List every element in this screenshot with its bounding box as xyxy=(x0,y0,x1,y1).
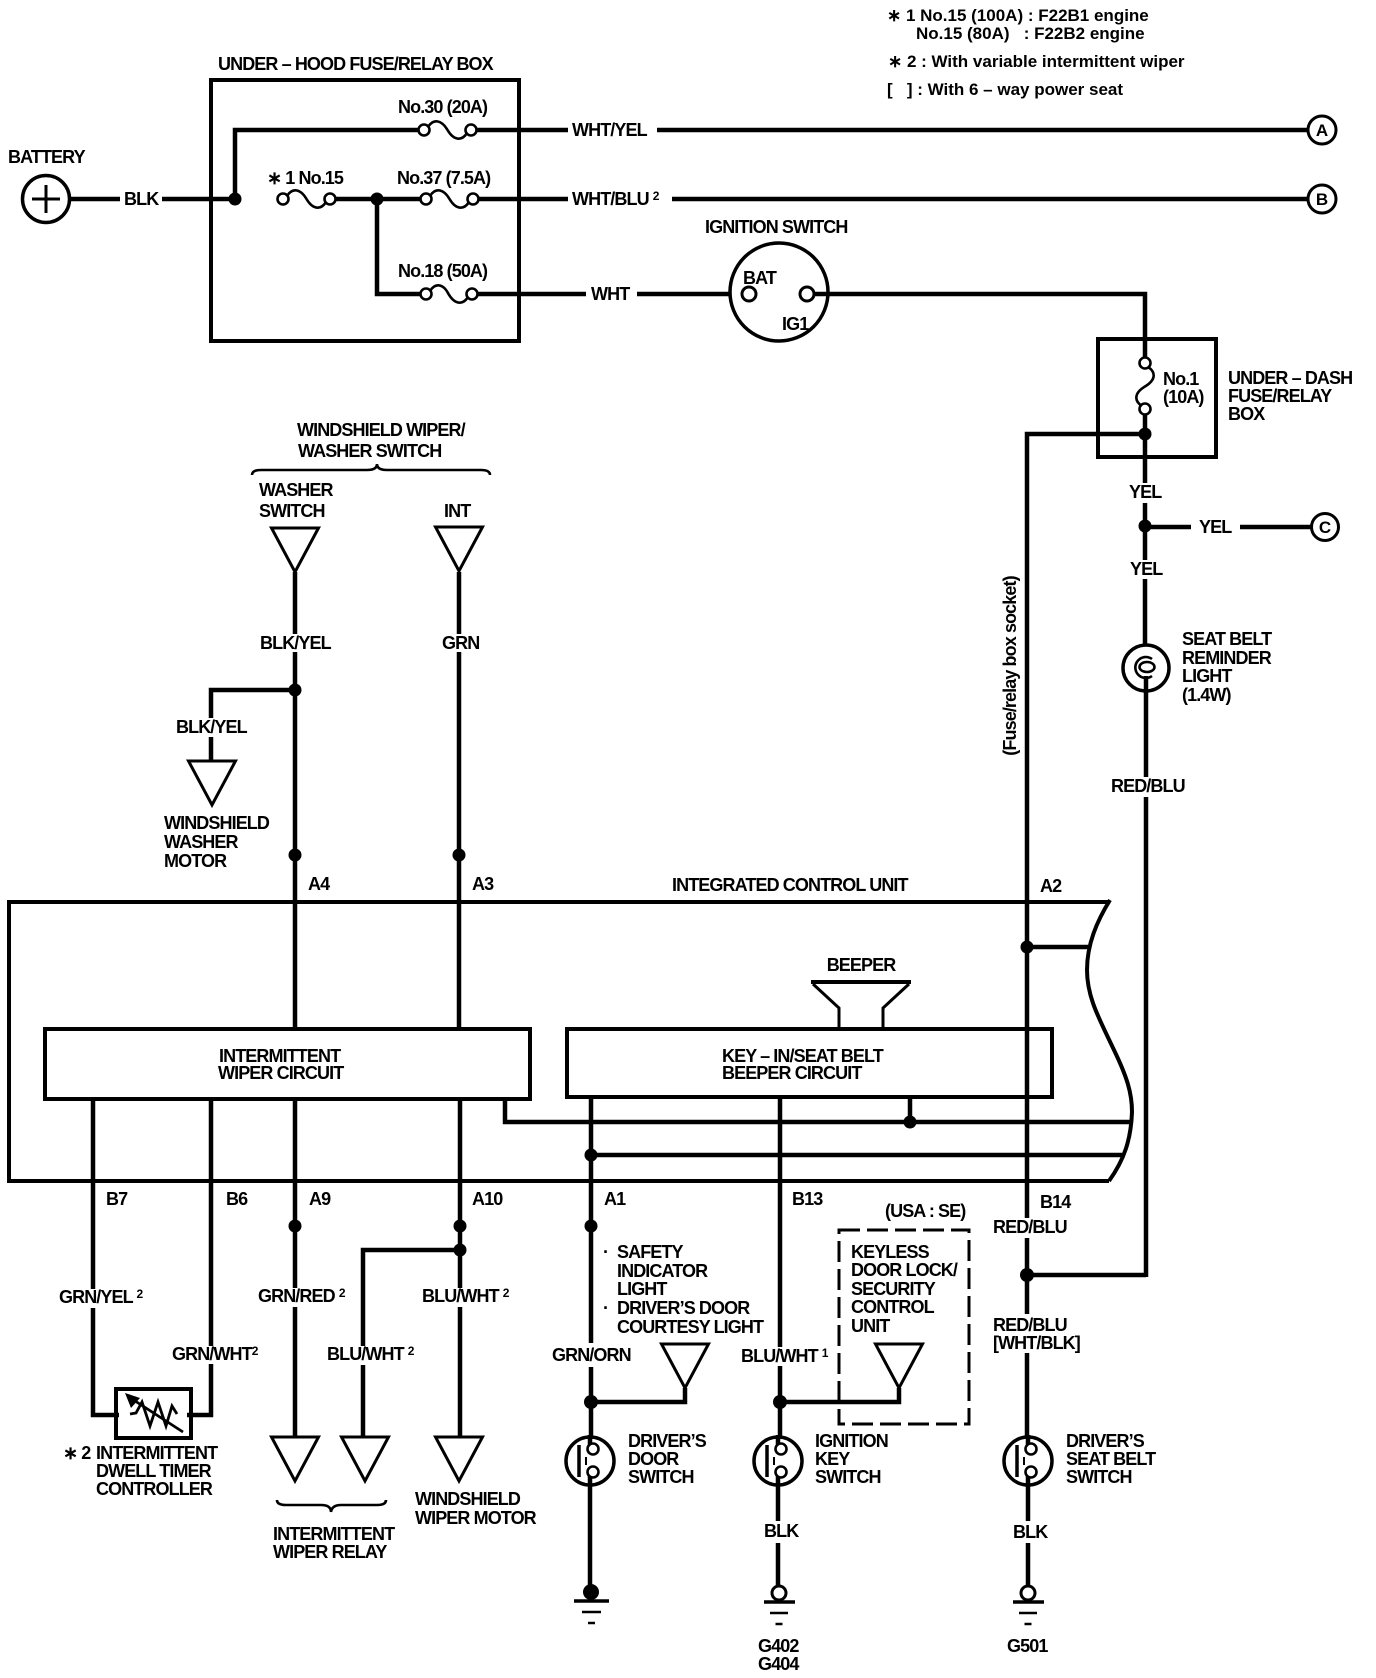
svg-text:SWITCH: SWITCH xyxy=(1066,1467,1132,1487)
svg-text:BLK: BLK xyxy=(764,1521,799,1541)
connector A xyxy=(1308,116,1336,144)
svg-text:[ ] : With 6 – way power sea: [ ] : With 6 – way power seat xyxy=(887,80,1123,99)
node junction dot B14/seat belt light xyxy=(1020,1268,1034,1282)
ground at driver's door switch xyxy=(583,1584,599,1600)
safety indicator connector triangle xyxy=(662,1344,709,1388)
wire fuse No.37 to WHT/BLU label xyxy=(478,197,568,202)
fuse No.30 (20A) xyxy=(419,125,430,136)
wire key-in pin A1 down xyxy=(589,1097,594,1439)
svg-text:RED/BLU: RED/BLU xyxy=(993,1315,1067,1335)
washer switch connector triangle xyxy=(272,528,319,572)
svg-text:(10A): (10A) xyxy=(1163,387,1204,407)
wire junction down to seat belt reminder light xyxy=(1143,532,1148,659)
svg-text:BOX: BOX xyxy=(1228,404,1265,424)
wire WHT to ignition switch BAT xyxy=(637,292,742,297)
svg-text:No.15 (80A) : F22B2 engine: No.15 (80A) : F22B2 engine xyxy=(916,24,1145,43)
intermittent wiper relay connector triangle left xyxy=(272,1437,319,1481)
svg-text:A4: A4 xyxy=(308,874,330,894)
node junction dot A1 bus xyxy=(585,1149,598,1162)
wire seat belt switch to BLK label xyxy=(1026,1485,1031,1521)
wire WHT/BLU to connector B xyxy=(672,197,1308,202)
wire YEL label to C junction xyxy=(1143,503,1148,532)
wire junction to keyless triangle xyxy=(780,1388,899,1402)
wire door switch to ground xyxy=(588,1485,593,1588)
svg-text:GRN/YEL 2: GRN/YEL 2 xyxy=(59,1287,143,1307)
intermittent wiper relay connector triangle right xyxy=(342,1437,389,1481)
wire BLK/YEL to washer motor junction xyxy=(293,652,298,696)
wire IG1 to under-dash fuse box xyxy=(814,294,1145,357)
wire fuse No.30 to WHT/YEL label xyxy=(476,128,568,133)
svg-text:DOOR: DOOR xyxy=(628,1449,679,1469)
fuse No.15 xyxy=(278,194,289,205)
ground G501 xyxy=(1013,1586,1044,1624)
svg-text:UNDER – DASH: UNDER – DASH xyxy=(1228,368,1352,388)
ignition switch BAT terminal xyxy=(742,287,756,301)
svg-text:YEL: YEL xyxy=(1199,517,1232,537)
wire fuse No.18 to WHT label xyxy=(477,292,586,297)
fuse No.37 (7.5A) xyxy=(421,194,432,205)
wire B14 to junction xyxy=(1025,1238,1030,1277)
integrated control unit outline xyxy=(9,902,1109,1181)
arrow through dwell timer resistor xyxy=(132,1399,183,1432)
svg-text:WIPER CIRCUIT: WIPER CIRCUIT xyxy=(218,1063,344,1083)
svg-text:WIPER RELAY: WIPER RELAY xyxy=(273,1542,387,1562)
svg-text:∗ 2 : With variable intermitte: ∗ 2 : With variable intermittent wiper xyxy=(888,52,1185,71)
svg-text:IGNITION: IGNITION xyxy=(815,1431,888,1451)
beeper speaker symbol xyxy=(811,980,911,984)
svg-text:·: · xyxy=(603,1242,608,1262)
svg-text:G501: G501 xyxy=(1007,1636,1048,1656)
svg-text:·: · xyxy=(603,1298,608,1318)
svg-text:GRN/ORN: GRN/ORN xyxy=(552,1345,631,1365)
svg-text:A9: A9 xyxy=(309,1189,331,1209)
wire socket junction stub to torn edge xyxy=(1027,945,1090,950)
svg-text:YEL: YEL xyxy=(1129,482,1162,502)
wire No.1 fuse down to YEL label xyxy=(1143,434,1148,483)
svg-text:B7: B7 xyxy=(106,1189,128,1209)
node junction dot in under-dash box xyxy=(1139,428,1152,441)
svg-text:G404: G404 xyxy=(758,1654,799,1674)
svg-text:FUSE/RELAY: FUSE/RELAY xyxy=(1228,386,1332,406)
wire GRN down to ICU pin A3 xyxy=(457,652,462,1031)
wiper INT connector triangle xyxy=(436,527,483,571)
node splice dot on A3 wire xyxy=(453,849,466,862)
wire branch A10 to relay triangle xyxy=(363,1250,460,1439)
svg-text:CONTROL: CONTROL xyxy=(851,1297,935,1317)
node junction dot A1 to courtesy light xyxy=(584,1395,598,1409)
lamp seat belt reminder light xyxy=(1123,645,1169,691)
svg-text:INTERMITTENT: INTERMITTENT xyxy=(273,1524,395,1544)
wire junction down to seat belt switch xyxy=(1025,1275,1030,1439)
svg-text:GRN: GRN xyxy=(442,633,479,653)
svg-text:SWITCH: SWITCH xyxy=(259,501,325,521)
svg-text:B14: B14 xyxy=(1040,1192,1071,1212)
svg-text:RED/BLU: RED/BLU xyxy=(1111,776,1185,796)
resistor zigzag in dwell timer xyxy=(130,1402,177,1426)
svg-text:WHT: WHT xyxy=(591,284,630,304)
node junction dot B13 to keyless unit xyxy=(773,1395,787,1409)
svg-text:DRIVER’S DOOR: DRIVER’S DOOR xyxy=(617,1298,750,1318)
node junction dot fuse/relay box socket xyxy=(1021,941,1034,954)
node splice dot on A1 wire xyxy=(585,1220,598,1233)
connector B xyxy=(1308,185,1336,213)
svg-text:BLK/YEL: BLK/YEL xyxy=(176,717,248,737)
svg-text:CONTROLLER: CONTROLLER xyxy=(96,1479,213,1499)
svg-text:BLK/YEL: BLK/YEL xyxy=(260,633,332,653)
svg-text:B: B xyxy=(1316,190,1328,209)
svg-text:INTERMITTENT: INTERMITTENT xyxy=(96,1443,218,1463)
integrated control unit torn edge xyxy=(1087,900,1132,1181)
node splice dot on A4 wire xyxy=(289,849,302,862)
svg-text:WINDSHIELD: WINDSHIELD xyxy=(415,1489,521,1509)
svg-text:GRN/WHT2: GRN/WHT2 xyxy=(172,1344,259,1364)
wire A1 bus across ICU xyxy=(591,1153,1122,1158)
ignition switch body xyxy=(730,243,828,341)
svg-text:WIPER MOTOR: WIPER MOTOR xyxy=(415,1508,537,1528)
svg-text:A1: A1 xyxy=(604,1189,626,1209)
svg-text:∗ 1 No.15 (100A) : F22B1 engin: ∗ 1 No.15 (100A) : F22B1 engine xyxy=(887,6,1149,25)
windshield washer motor connector triangle xyxy=(189,761,236,805)
wire fuse No.15 to junction xyxy=(335,197,421,202)
svg-text:LIGHT: LIGHT xyxy=(1182,666,1232,686)
svg-text:RED/BLU: RED/BLU xyxy=(993,1217,1067,1237)
svg-text:IG1: IG1 xyxy=(782,314,809,334)
wire YEL label to connector C xyxy=(1240,525,1311,530)
intermittent dwell timer controller box xyxy=(116,1389,191,1438)
wire BLK/YEL label to washer motor xyxy=(209,737,214,762)
svg-text:MOTOR: MOTOR xyxy=(164,851,227,871)
svg-text:∗ 1 No.15: ∗ 1 No.15 xyxy=(267,168,344,188)
svg-text:BLU/WHT 1: BLU/WHT 1 xyxy=(741,1346,829,1366)
wire washer switch down to BLK/YEL label xyxy=(293,572,298,634)
svg-text:BEEPER CIRCUIT: BEEPER CIRCUIT xyxy=(722,1063,862,1083)
svg-text:WINDSHIELD WIPER/: WINDSHIELD WIPER/ xyxy=(297,420,466,440)
svg-text:DRIVER’S: DRIVER’S xyxy=(1066,1431,1145,1451)
svg-text:BATTERY: BATTERY xyxy=(8,147,86,167)
svg-text:BLU/WHT 2: BLU/WHT 2 xyxy=(327,1344,415,1364)
svg-text:WHT/YEL: WHT/YEL xyxy=(572,120,648,140)
svg-text:C: C xyxy=(1319,518,1331,537)
svg-text:WHT/BLU 2: WHT/BLU 2 xyxy=(572,189,660,209)
svg-text:B6: B6 xyxy=(226,1189,248,1209)
svg-text:DWELL TIMER: DWELL TIMER xyxy=(96,1461,212,1481)
svg-text:DRIVER’S: DRIVER’S xyxy=(628,1431,707,1451)
wire junction to fuse/relay box socket drop xyxy=(1027,434,1145,904)
node junction dot No.37/No.18 feed xyxy=(371,193,384,206)
svg-text:No.18 (50A): No.18 (50A) xyxy=(398,261,488,281)
wire IWC pin B7 down xyxy=(93,1099,119,1415)
wire WHT/YEL to connector A xyxy=(657,128,1308,133)
wire IWC stub down and right to torn edge xyxy=(505,1099,1130,1122)
node junction dot A10 branch xyxy=(454,1244,467,1257)
svg-text:LIGHT: LIGHT xyxy=(617,1279,667,1299)
windshield wiper motor connector triangle xyxy=(436,1437,483,1481)
svg-text:BLU/WHT 2: BLU/WHT 2 xyxy=(422,1286,510,1306)
svg-text:BAT: BAT xyxy=(743,268,777,288)
ignition key switch SW2 xyxy=(754,1435,802,1487)
svg-text:SWITCH: SWITCH xyxy=(815,1467,881,1487)
svg-text:∗ 2: ∗ 2 xyxy=(63,1443,91,1463)
svg-text:G402: G402 xyxy=(758,1636,799,1656)
node junction dot YEL branch xyxy=(1139,520,1152,533)
node splice dot on A9 wire xyxy=(289,1220,302,1233)
svg-text:SECURITY: SECURITY xyxy=(851,1279,936,1299)
svg-text:WASHER: WASHER xyxy=(259,480,334,500)
svg-text:(Fuse/relay box socket): (Fuse/relay box socket) xyxy=(1000,575,1020,755)
wire riser junction to fuse No.30 row xyxy=(235,130,419,199)
svg-text:IGNITION SWITCH: IGNITION SWITCH xyxy=(705,217,848,237)
svg-text:[WHT/BLK]: [WHT/BLK] xyxy=(993,1333,1080,1353)
svg-text:INTEGRATED CONTROL UNIT: INTEGRATED CONTROL UNIT xyxy=(672,875,909,895)
svg-text:No.37 (7.5A): No.37 (7.5A) xyxy=(397,168,491,188)
svg-text:A2: A2 xyxy=(1040,876,1062,896)
keyless unit connector triangle xyxy=(876,1344,923,1388)
wire fuse No.1 to junction xyxy=(1143,414,1148,440)
svg-text:UNIT: UNIT xyxy=(851,1316,890,1336)
svg-text:REMINDER: REMINDER xyxy=(1182,648,1272,668)
wire socket down through ICU to B14 xyxy=(1025,904,1030,1218)
svg-text:A3: A3 xyxy=(472,874,494,894)
wire key-in pin B13 down xyxy=(778,1097,783,1439)
ground G402/G404 xyxy=(764,1586,795,1624)
svg-text:(1.4W): (1.4W) xyxy=(1182,685,1232,705)
wire battery to BLK label xyxy=(70,197,120,202)
svg-text:INT: INT xyxy=(444,501,471,521)
wire riser junction to fuse No.18 row xyxy=(377,199,420,294)
ignition switch IG1 terminal xyxy=(800,287,814,301)
wire BLK label to junction xyxy=(162,197,237,202)
svg-text:BEEPER: BEEPER xyxy=(827,955,897,975)
svg-text:SAFETY: SAFETY xyxy=(617,1242,684,1262)
connector C xyxy=(1312,514,1339,541)
wire junction down to ICU pin A4 xyxy=(293,690,298,1031)
svg-text:No.30 (20A): No.30 (20A) xyxy=(398,97,488,117)
driver's door switch SW1 xyxy=(566,1435,614,1487)
node splice dot on A10 wire xyxy=(454,1220,467,1233)
svg-text:BLK: BLK xyxy=(124,189,159,209)
svg-text:SEAT BELT: SEAT BELT xyxy=(1182,629,1272,649)
under-hood fuse/relay box outline xyxy=(211,80,519,341)
svg-text:INDICATOR: INDICATOR xyxy=(617,1261,708,1281)
svg-text:A: A xyxy=(1316,121,1328,140)
svg-text:A10: A10 xyxy=(472,1189,503,1209)
svg-text:No.1: No.1 xyxy=(1163,369,1199,389)
wire key-in box to bus junction xyxy=(908,1097,913,1122)
svg-text:WASHER SWITCH: WASHER SWITCH xyxy=(298,441,441,461)
svg-text:YEL: YEL xyxy=(1130,559,1163,579)
brace over wiper/washer switch xyxy=(252,464,490,475)
wire IWC pin A9 down xyxy=(293,1099,298,1439)
svg-text:SWITCH: SWITCH xyxy=(628,1467,694,1487)
wire junction to seat belt light drop xyxy=(1027,1273,1146,1278)
wire BLK to ground G402 xyxy=(776,1543,781,1587)
svg-text:SEAT BELT: SEAT BELT xyxy=(1066,1449,1156,1469)
svg-text:GRN/RED 2: GRN/RED 2 xyxy=(258,1286,346,1306)
wire IWC pin B6 down xyxy=(187,1099,211,1415)
wire ignition key switch to BLK label xyxy=(776,1485,781,1521)
wire BLK to ground G501 xyxy=(1026,1543,1031,1587)
key-in/seat belt beeper circuit box xyxy=(567,1029,1052,1097)
svg-text:UNDER – HOOD FUSE/RELAY BOX: UNDER – HOOD FUSE/RELAY BOX xyxy=(218,54,494,74)
svg-text:KEY: KEY xyxy=(815,1449,850,1469)
svg-text:(USA : SE): (USA : SE) xyxy=(885,1201,966,1221)
wire INT switch down to GRN label xyxy=(457,572,462,634)
driver's seat belt switch SW3 xyxy=(1004,1435,1052,1487)
battery B1 symbol xyxy=(23,176,70,223)
wire RED/BLU down to B14 junction row xyxy=(1144,797,1149,1277)
svg-text:WASHER: WASHER xyxy=(164,832,239,852)
node junction dot washer motor branch xyxy=(289,684,302,697)
svg-text:KEYLESS: KEYLESS xyxy=(851,1242,930,1262)
svg-text:DOOR LOCK/: DOOR LOCK/ xyxy=(851,1260,958,1280)
node junction dot beeper circuit to bus xyxy=(904,1116,917,1129)
intermittent wiper circuit box xyxy=(45,1029,530,1099)
fuse No.1 (10A) xyxy=(1140,358,1151,369)
brace under intermittent wiper relay xyxy=(277,1500,386,1512)
svg-text:COURTESY LIGHT: COURTESY LIGHT xyxy=(617,1317,764,1337)
fuse No.18 (50A) xyxy=(421,289,432,300)
wire junction to safety indicator triangle xyxy=(591,1388,685,1402)
node junction dot at battery feed xyxy=(229,193,242,206)
svg-text:WINDSHIELD: WINDSHIELD xyxy=(164,813,270,833)
under-dash fuse/relay box outline xyxy=(1098,339,1216,457)
keyless door lock/security control unit box xyxy=(839,1230,969,1424)
wire light down to RED/BLU label xyxy=(1144,676,1149,777)
svg-text:B13: B13 xyxy=(792,1189,823,1209)
wire junction to YEL label toward C xyxy=(1145,525,1191,530)
wire branch to windshield washer motor xyxy=(211,690,295,718)
svg-text:BLK: BLK xyxy=(1013,1522,1048,1542)
wire IWC pin A10 down xyxy=(458,1099,463,1439)
